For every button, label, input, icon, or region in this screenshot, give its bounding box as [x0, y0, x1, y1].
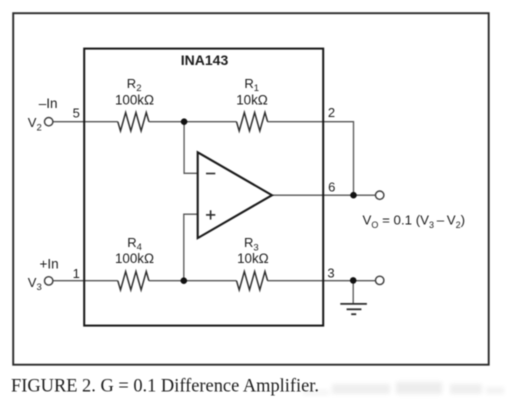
svg-text:FIGURE 2. G = 0.1 Difference A: FIGURE 2. G = 0.1 Difference Amplifier.: [11, 375, 319, 396]
svg-text:VO = 0.1 (V3 – V2): VO = 0.1 (V3 – V2): [363, 213, 466, 230]
svg-text:INA143: INA143: [181, 52, 229, 68]
svg-text:5: 5: [73, 106, 80, 121]
svg-text:2: 2: [328, 105, 335, 120]
svg-text:6: 6: [328, 180, 335, 195]
svg-text:10kΩ: 10kΩ: [236, 93, 268, 108]
svg-text:+In: +In: [40, 256, 59, 271]
svg-text:100kΩ: 100kΩ: [115, 93, 154, 108]
svg-text:–In: –In: [39, 96, 58, 111]
svg-text:1: 1: [73, 266, 80, 281]
svg-text:3: 3: [327, 266, 334, 281]
svg-text:10kΩ: 10kΩ: [237, 251, 269, 266]
svg-text:100kΩ: 100kΩ: [115, 251, 154, 266]
